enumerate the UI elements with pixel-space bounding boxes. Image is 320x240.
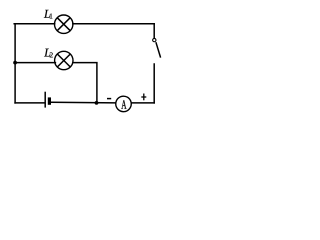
wire from ammeter to bottom-right corner — [132, 102, 154, 104]
wire right vertical upper (to switch) — [153, 24, 155, 38]
lamp L1 — [55, 15, 73, 33]
wire L2 branch right — [73, 63, 97, 103]
lamp L2 — [55, 51, 73, 69]
wire from battery to ammeter — [51, 101, 115, 104]
ammeter A1 — [116, 96, 132, 112]
wire bottom from left corner to battery — [15, 102, 45, 104]
node junction dot bottom (L2 return) — [95, 101, 99, 105]
label L1 — [44, 10, 50, 18]
switch S1 pivot circle — [153, 38, 156, 41]
wire right vertical lower (from switch) — [153, 64, 155, 103]
wire L2 branch left — [15, 62, 55, 64]
wire top-left horizontal — [14, 23, 54, 25]
switch S1 open blade — [156, 42, 161, 57]
battery B1 — [45, 92, 51, 108]
label L2 — [44, 49, 50, 57]
node junction dot left (L2 tap) — [13, 61, 17, 65]
ammeter plus label — [141, 94, 146, 101]
wire top-right horizontal — [73, 23, 154, 25]
battery long plate — [44, 92, 46, 108]
wire left vertical — [14, 24, 16, 103]
battery short thick plate — [48, 97, 51, 104]
ammeter letter A — [121, 100, 126, 109]
ammeter minus label — [107, 98, 111, 100]
